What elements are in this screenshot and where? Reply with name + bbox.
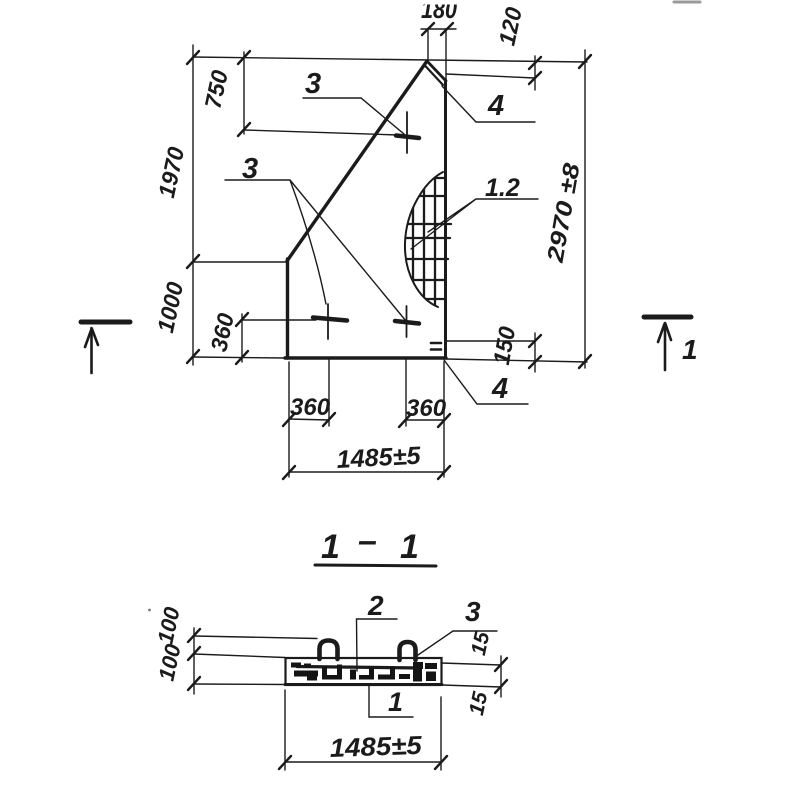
dim tick top left — [187, 51, 199, 64]
svg-text:100: 100 — [154, 641, 186, 683]
svg-text:1.2: 1.2 — [485, 174, 520, 202]
panel bevel edge (double line) — [427, 61, 446, 81]
dimension 15 lines right — [441, 663, 501, 665]
svg-text:2970 ±8: 2970 ±8 — [541, 161, 584, 265]
leader label 1 bottom — [369, 686, 413, 717]
svg-text:1: 1 — [400, 528, 419, 566]
extension lines below panel — [288, 362, 290, 477]
wire: stray scan line top right — [674, 1, 700, 4]
svg-text:–: – — [358, 522, 377, 560]
svg-text:1: 1 — [321, 528, 340, 566]
leader label 2 — [357, 619, 398, 671]
embedded mark at bottom right inside panel — [431, 342, 441, 345]
dimension 360 bottom right — [405, 419, 444, 421]
svg-text:1970: 1970 — [153, 144, 189, 200]
panel left edge — [286, 259, 289, 358]
dimension 180 at apex — [421, 28, 456, 30]
leader label 3 bottom — [418, 631, 497, 655]
leader label 4 bottom — [444, 360, 528, 404]
dimension 2970 line — [584, 50, 586, 368]
panel bottom edge — [285, 356, 446, 359]
svg-text:3: 3 — [305, 68, 321, 100]
svg-text:120: 120 — [493, 5, 526, 48]
svg-text:360: 360 — [290, 394, 331, 421]
rebar 3 upper position mark — [406, 112, 408, 153]
left main dimension line — [192, 45, 194, 365]
section arrow left — [81, 320, 130, 325]
panel sloped top edge — [287, 61, 427, 261]
rebar sections inside slab — [291, 662, 437, 682]
reference line at 1000 level — [193, 261, 288, 263]
dimension 120 — [446, 74, 535, 78]
dimension 360 bottom left — [289, 419, 329, 420]
svg-text:4: 4 — [487, 90, 504, 122]
mesh bar stubs crossing panel edge — [444, 224, 451, 259]
rebar 3 left position mark — [327, 304, 329, 339]
svg-text:750: 750 — [199, 68, 232, 111]
leader label 3 top — [303, 98, 404, 134]
svg-text:3: 3 — [242, 153, 258, 185]
bottom edge extension right — [446, 359, 587, 362]
leader label 1.2 — [411, 199, 538, 249]
mesh vertical bars — [413, 170, 435, 308]
top reference line — [193, 57, 587, 62]
leader label 4 top — [442, 86, 535, 122]
svg-text:100: 100 — [153, 604, 185, 646]
bottom edge extension left — [193, 357, 286, 358]
dimension 360 vertical — [241, 314, 243, 362]
dim tick bottom left — [187, 350, 199, 363]
svg-text:15: 15 — [467, 630, 494, 658]
svg-text:4: 4 — [491, 373, 508, 405]
svg-text:360: 360 — [205, 311, 238, 354]
svg-text:1485±5: 1485±5 — [336, 442, 422, 474]
svg-text:1000: 1000 — [152, 279, 188, 335]
dimension 1485 top view — [289, 471, 444, 473]
slab outline — [286, 658, 442, 685]
rebar 3 right position mark — [406, 306, 408, 337]
lifting loop left — [320, 641, 338, 660]
svg-text:2: 2 — [367, 590, 384, 621]
leader label 3 middle (two branches) — [225, 180, 406, 321]
dimension 150 — [445, 340, 535, 342]
svg-text:360: 360 — [406, 395, 447, 422]
section arrow right — [644, 315, 691, 320]
left reference lines of section — [193, 628, 195, 694]
svg-text:1: 1 — [388, 687, 403, 717]
dimension 1485 section — [284, 690, 286, 770]
panel right edge — [444, 80, 447, 358]
svg-text:3: 3 — [465, 596, 481, 627]
svg-text:15: 15 — [465, 690, 492, 718]
section title underline — [315, 565, 436, 566]
svg-text:1485±5: 1485±5 — [329, 730, 423, 763]
reference line 750 to rebar — [244, 130, 398, 135]
svg-text:1: 1 — [682, 334, 698, 365]
lifting loop right — [400, 642, 416, 660]
scan speck — [148, 609, 151, 612]
mesh horizontal bars — [404, 178, 445, 299]
dimension 750 line — [243, 52, 245, 134]
rebar bar along slab — [297, 667, 420, 669]
dim tick mid left — [187, 255, 199, 268]
